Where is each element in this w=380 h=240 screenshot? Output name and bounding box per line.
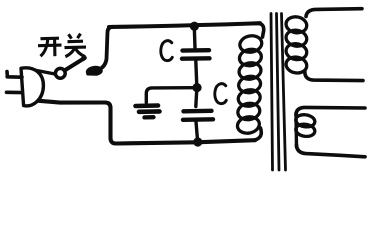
wire mid junction to ground: [146, 88, 193, 103]
junction dot top: [190, 22, 199, 31]
capacitor C2 stub top: [196, 89, 197, 107]
capacitor C1 plates: [183, 48, 210, 53]
transformer primary winding: [236, 34, 263, 135]
secondary bottom vertical: [294, 113, 298, 147]
secondary top winding: [285, 15, 308, 74]
transformer core line 2: [277, 14, 280, 171]
wire upper-left vertical to switch contact: [99, 27, 113, 70]
ground: [136, 103, 159, 108]
label C of C2: [215, 84, 226, 104]
junction dot mid: [192, 83, 201, 92]
switch lever tip: [79, 55, 88, 62]
secondary top lead upper: [306, 9, 362, 17]
switch pivot: [55, 68, 65, 78]
plug prong 1: [7, 72, 22, 78]
wire top rail: [109, 23, 260, 27]
capacitor C2 stub bottom: [196, 122, 198, 141]
capacitor C1 stub top: [193, 27, 197, 48]
transformer core line 1: [271, 14, 273, 171]
capacitor C1 stub bottom: [196, 61, 197, 87]
label C of C1: [161, 41, 172, 61]
transformer primary exit: [255, 128, 261, 140]
secondary bottom lead lower: [297, 145, 366, 157]
plug body: [21, 68, 43, 106]
junction dot bottom: [193, 137, 202, 146]
secondary bottom winding: [295, 114, 316, 138]
wire plug to switch: [34, 70, 55, 74]
switch fixed contact blob: [87, 67, 102, 75]
capacitor C2 plates: [184, 109, 212, 114]
secondary top lead lower: [305, 71, 363, 81]
wire plug bottom to bottom rail: [39, 101, 255, 144]
label 开关: [38, 34, 86, 57]
plug prong 2: [7, 91, 23, 95]
transformer primary entry: [256, 23, 264, 37]
transformer core line 3: [282, 14, 286, 171]
secondary bottom lead upper: [296, 107, 365, 115]
switch lever: [65, 59, 84, 71]
